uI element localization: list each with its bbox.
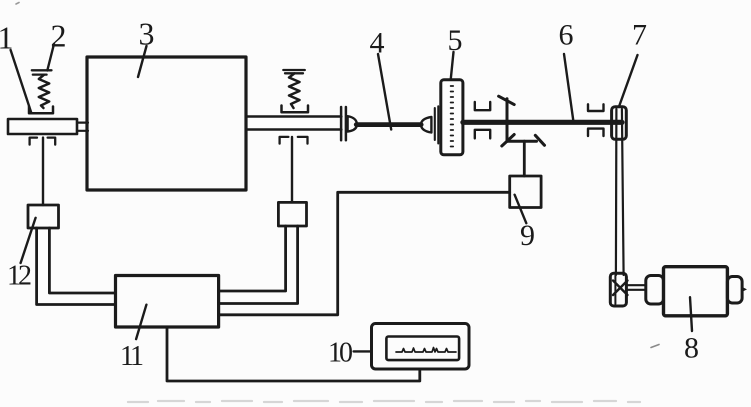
bar right tick bbox=[535, 135, 544, 145]
label 9 bbox=[520, 219, 535, 252]
label 12 bbox=[7, 261, 31, 292]
drop link to box 9 bbox=[523, 141, 526, 176]
spring zigzag (right) bbox=[289, 73, 300, 108]
coupling cone (right) bbox=[421, 117, 431, 133]
motor pulley (bottom) bbox=[610, 273, 626, 306]
label 10 bbox=[328, 338, 352, 369]
leader line to recorder (10) bbox=[354, 350, 372, 352]
torque lever on shaft bbox=[506, 99, 509, 141]
bearing cup lower (second) bbox=[588, 129, 604, 136]
coupling flange bars (left) bbox=[341, 107, 346, 140]
pickup clamp below shaft (right) bbox=[280, 137, 308, 144]
leader line to motor (8) bbox=[690, 297, 692, 331]
amplifier box 11 bbox=[116, 276, 219, 328]
dial scale 5 bbox=[441, 80, 463, 155]
belt line right bbox=[622, 109, 624, 275]
wire amplifier to right sensor (upper) bbox=[219, 226, 286, 291]
stray mark near label 8 bbox=[651, 345, 659, 348]
coupling flange bars (right) bbox=[435, 106, 439, 143]
recorder 10 outer case bbox=[372, 324, 470, 370]
wire box12 to amplifier (lower) bbox=[37, 228, 116, 305]
svg-text:5: 5 bbox=[448, 24, 463, 57]
faint caption remnants at bottom bbox=[128, 401, 640, 402]
label 11 bbox=[120, 341, 143, 372]
lever top tick bbox=[499, 96, 515, 104]
svg-text:6: 6 bbox=[559, 19, 574, 52]
pickup clamp below shaft (left) bbox=[30, 138, 56, 145]
pulley 7 bbox=[612, 107, 627, 140]
bearing cup upper (second) bbox=[588, 104, 604, 111]
wire amplifier to recorder 10 bbox=[167, 327, 420, 381]
label 4 bbox=[370, 27, 385, 60]
label 2 bbox=[51, 18, 67, 54]
svg-text:12: 12 bbox=[7, 261, 31, 292]
dial tick marks bbox=[451, 86, 454, 147]
spring 2 zigzag (left) bbox=[39, 75, 49, 108]
pickup box 12 bbox=[28, 205, 59, 228]
leader line to spring (2) bbox=[47, 44, 54, 71]
leader line to dial (5) bbox=[451, 52, 454, 80]
motor pulley rim line bbox=[614, 276, 616, 305]
svg-text:8: 8 bbox=[684, 332, 699, 365]
faint speck top-left bbox=[16, 3, 19, 5]
sensing rod (right) bbox=[291, 137, 293, 202]
gearbox 3 bbox=[87, 57, 246, 190]
bearing cup upper (first) bbox=[475, 102, 490, 110]
pickup box (right sensor) bbox=[278, 202, 306, 226]
bearing cup lower (first) bbox=[475, 130, 490, 139]
wire amplifier to right sensor (lower) bbox=[219, 226, 298, 304]
wire amplifier to box 9 bbox=[219, 192, 510, 314]
output shaft of gearbox (wide) bbox=[246, 117, 341, 130]
coupling cone (left) bbox=[348, 116, 357, 131]
leader line to shaft end (1) bbox=[11, 50, 32, 113]
spring anchor lines (right) bbox=[283, 70, 305, 73]
motor left end cap bbox=[646, 276, 664, 305]
label 3 bbox=[139, 16, 155, 52]
main shaft 6 bbox=[463, 120, 622, 125]
label 1 bbox=[0, 20, 14, 56]
svg-text:11: 11 bbox=[120, 341, 143, 372]
svg-text:9: 9 bbox=[520, 219, 535, 252]
svg-text:10: 10 bbox=[328, 338, 352, 369]
pickup box 9 bbox=[510, 176, 541, 208]
wire box12 to amplifier (upper) bbox=[49, 228, 115, 293]
motor shaft stub bbox=[626, 285, 646, 290]
torsion shaft 4 bbox=[356, 122, 421, 127]
motor 8 body bbox=[664, 267, 728, 316]
label 7 bbox=[632, 19, 647, 52]
label 6 bbox=[559, 19, 574, 52]
motor rear nub bbox=[742, 287, 747, 292]
leader line into box (3) bbox=[138, 46, 147, 77]
belt line left bbox=[615, 109, 618, 275]
label 5 bbox=[448, 24, 463, 57]
sensing rod (left) bbox=[42, 138, 44, 205]
input shaft journal (left) bbox=[8, 119, 77, 134]
svg-text:7: 7 bbox=[632, 19, 647, 52]
leader line from box 11 bbox=[136, 305, 146, 339]
lever horizontal bar bbox=[507, 140, 537, 143]
leader line from box 9 bbox=[515, 195, 527, 224]
belt cross marks bbox=[613, 281, 628, 296]
motor right end cap bbox=[727, 277, 742, 304]
waveform trace bbox=[396, 348, 456, 353]
lever bottom tick bbox=[502, 135, 514, 147]
leader line from box 12 bbox=[21, 218, 36, 263]
leader line to shaft (6) bbox=[564, 54, 573, 120]
leader line to torsion shaft (4) bbox=[378, 54, 391, 130]
shaft neck into gearbox bbox=[77, 123, 88, 131]
leader line to pulley (7) bbox=[619, 55, 638, 107]
spring seat cup (left) bbox=[29, 107, 53, 114]
recorder screen bbox=[386, 337, 459, 361]
spring seat cup (right) bbox=[282, 106, 309, 113]
spring anchor lines (left) bbox=[32, 70, 52, 74]
label 8 bbox=[684, 332, 699, 365]
